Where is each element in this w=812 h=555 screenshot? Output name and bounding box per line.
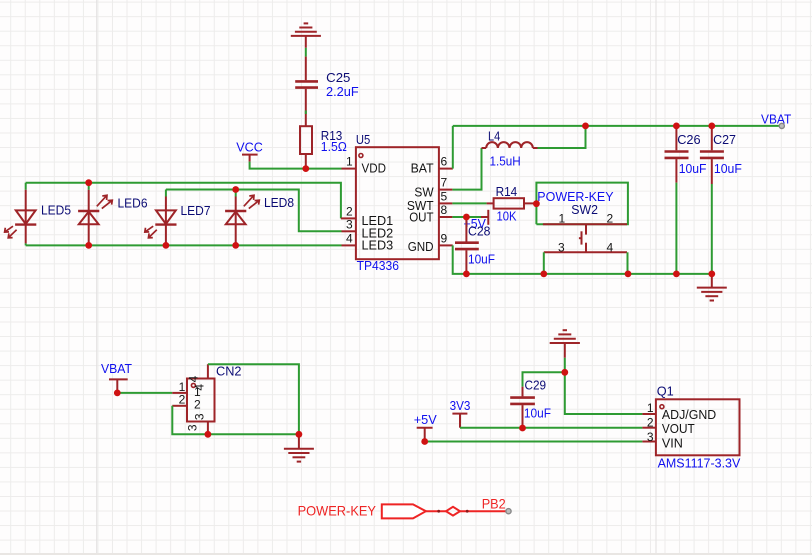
svg-text:SW: SW [414, 184, 434, 199]
junction LED8 bottom [232, 242, 239, 249]
connector CN2 [172, 364, 214, 434]
ground (middle, above Q1) [550, 330, 580, 358]
unconnected pin marker VBAT [779, 123, 784, 128]
junction LED6 bottom [85, 242, 92, 249]
wire ground node to C29 [523, 372, 565, 386]
LED LED8 (flipped) [225, 190, 259, 246]
svg-text:4: 4 [346, 231, 353, 245]
svg-text:AMS1117-3.3V: AMS1117-3.3V [658, 455, 741, 470]
svg-text:2: 2 [606, 211, 613, 225]
svg-text:U5: U5 [356, 132, 370, 147]
junction C27 / VBAT [708, 123, 715, 130]
switch SW2 POWER-KEY [543, 224, 627, 252]
svg-text:CN2: CN2 [216, 364, 242, 379]
inductor L4 1.5uH [482, 142, 538, 148]
wire CN2.4 loop to ground rail [208, 364, 299, 434]
svg-text:2: 2 [194, 397, 201, 411]
wire VBAT to CN2.1 [117, 392, 172, 394]
svg-text:3: 3 [647, 430, 654, 444]
net label VCC [242, 155, 258, 162]
IC Q1 AMS1117-3.3V [642, 399, 739, 455]
svg-text:VIN: VIN [662, 435, 683, 450]
svg-text:10uF: 10uF [468, 251, 495, 266]
svg-text:VOUT: VOUT [662, 421, 695, 436]
wire LED cathode rail to U5.LED3 [26, 244, 342, 246]
svg-text:1: 1 [346, 155, 353, 169]
wire LED row B to U5.LED2 [166, 190, 342, 232]
svg-text:6: 6 [441, 155, 448, 169]
junction SW2 pin4 / GND rail [625, 271, 632, 278]
junction C28 / GND rail [463, 271, 470, 278]
svg-text:4: 4 [606, 241, 613, 255]
junction +5V / VIN wire [421, 438, 428, 445]
svg-text:2: 2 [647, 416, 654, 430]
svg-text:OUT: OUT [409, 210, 433, 225]
svg-text:4: 4 [186, 375, 200, 382]
capacitor C28 10uF [455, 217, 479, 274]
wire ground node to Q1.ADJ [565, 372, 643, 414]
svg-text:9: 9 [441, 231, 448, 245]
junction LED7 bottom [163, 242, 170, 249]
svg-text:10uF: 10uF [679, 161, 707, 176]
net label +5V (VIN) [417, 428, 433, 442]
LED LED6 (flipped) [78, 183, 112, 246]
wire U5.BAT up to VBAT rail [452, 126, 454, 169]
net label 3V3 [452, 414, 467, 428]
net port POWER-KEY flag [382, 504, 508, 518]
wire SW2 pin3 to GND rail [543, 252, 545, 274]
capacitor C25 2.2uF [295, 57, 318, 127]
unconnected pin marker PB2 [506, 509, 511, 514]
junction OUT / C28 [463, 214, 470, 221]
wire 3V3 to Q1.VOUT [460, 427, 642, 429]
ground (bottom left) [284, 434, 314, 461]
net label +5V on OUT [481, 210, 488, 225]
svg-text:10K: 10K [497, 209, 517, 224]
svg-text:2: 2 [179, 392, 186, 406]
resistor R14 10K [487, 198, 537, 208]
svg-text:LED3: LED3 [362, 238, 394, 253]
wire U5.OUT node [452, 216, 481, 218]
svg-text:LED5: LED5 [41, 202, 71, 217]
wire VCC to U5.VDD [250, 162, 342, 169]
wire U5.SW to L4 [452, 148, 481, 190]
wire ground to junction [564, 358, 566, 373]
pin end dot [466, 510, 469, 513]
svg-text:R14: R14 [496, 184, 518, 199]
capacitor C27 10uF [700, 126, 724, 184]
svg-text:C26: C26 [677, 132, 700, 147]
junction LED8 top [232, 186, 239, 193]
svg-text:3: 3 [558, 241, 565, 255]
LED LED7 [145, 190, 177, 246]
IC U5 TP4336 [341, 147, 453, 259]
net label VBAT (CN2) [109, 379, 128, 393]
junction C26 / VBAT [673, 123, 680, 130]
junction SW2 pin3 / GND rail [540, 271, 547, 278]
svg-text:TP4336: TP4336 [357, 258, 399, 273]
svg-text:C29: C29 [525, 378, 547, 393]
svg-text:2.2uF: 2.2uF [326, 84, 359, 99]
capacitor C26 10uF [665, 126, 689, 183]
wire SW2 pin4 to GND rail [627, 252, 629, 274]
ground (top, above C25) [291, 23, 321, 47]
junction LED6 top [85, 179, 92, 186]
wire C26 to GND rail [675, 183, 677, 274]
junction C29 / VOUT rail [519, 425, 526, 432]
pin end dot [437, 510, 440, 513]
wire ground to C25 [305, 48, 307, 57]
LED LED5 [5, 183, 37, 246]
svg-text:C25: C25 [326, 70, 350, 85]
svg-text:C27: C27 [713, 132, 736, 147]
svg-text:1.5uH: 1.5uH [490, 154, 521, 169]
wire U5.SWT to R14 [452, 202, 486, 204]
wire VBAT rail [453, 125, 782, 127]
svg-text:2: 2 [346, 204, 353, 218]
svg-text:10uF: 10uF [714, 161, 742, 176]
svg-text:C28: C28 [468, 224, 490, 239]
ground (bottom right) [697, 274, 727, 301]
svg-text:3: 3 [186, 424, 200, 431]
junction R14 / SW2 wire [533, 200, 540, 207]
svg-text:LED7: LED7 [181, 203, 211, 218]
wire CN2.2 to ground rail [172, 406, 299, 435]
svg-text:3V3: 3V3 [450, 398, 471, 413]
junction C27 / GND rail [708, 271, 715, 278]
svg-text:5: 5 [441, 189, 448, 203]
svg-text:4: 4 [193, 384, 207, 391]
svg-text:8: 8 [441, 203, 448, 217]
svg-text:VDD: VDD [362, 161, 387, 176]
svg-text:LED6: LED6 [118, 196, 148, 211]
svg-text:PB2: PB2 [482, 495, 506, 511]
wire R14 to SW2 loop [536, 183, 628, 225]
junction ground node [561, 369, 568, 376]
wire U5.GND to ground rail [453, 245, 712, 274]
svg-text:ADJ/GND: ADJ/GND [662, 407, 716, 422]
svg-text:10uF: 10uF [524, 405, 551, 420]
svg-text:Q1: Q1 [657, 383, 674, 398]
svg-text:VCC: VCC [236, 140, 262, 155]
svg-text:GND: GND [408, 239, 434, 254]
svg-text:POWER-KEY: POWER-KEY [298, 503, 377, 519]
junction VBAT / CN2 wire [114, 390, 121, 397]
resistor R13 1.5Ω [300, 126, 312, 168]
svg-text:L4: L4 [488, 128, 500, 143]
svg-text:1: 1 [558, 211, 565, 225]
junction ground rail corner [296, 431, 303, 438]
svg-text:1: 1 [647, 401, 654, 415]
svg-text:BAT: BAT [411, 161, 434, 176]
svg-text:+5V: +5V [414, 412, 437, 427]
svg-text:3: 3 [193, 413, 207, 420]
wire C27 to GND rail [711, 184, 713, 274]
svg-text:VBAT: VBAT [101, 361, 132, 376]
svg-text:3: 3 [346, 217, 353, 231]
junction C26 / GND rail [673, 271, 680, 278]
wire LED row A to U5.LED1 [26, 183, 341, 219]
svg-text:1.5Ω: 1.5Ω [321, 139, 347, 154]
wire +5V to Q1.VIN [425, 441, 643, 443]
junction R13 / VCC wire [302, 165, 309, 172]
svg-text:LED8: LED8 [264, 195, 294, 210]
wire L4 to VBAT rail [538, 126, 586, 148]
svg-text:VBAT: VBAT [761, 112, 791, 127]
svg-text:7: 7 [441, 176, 448, 190]
junction CN2.3 / ground rail [205, 431, 212, 438]
capacitor C29 10uF [510, 387, 535, 428]
junction L4 / VBAT [582, 123, 589, 130]
svg-text:SW2: SW2 [571, 202, 598, 217]
